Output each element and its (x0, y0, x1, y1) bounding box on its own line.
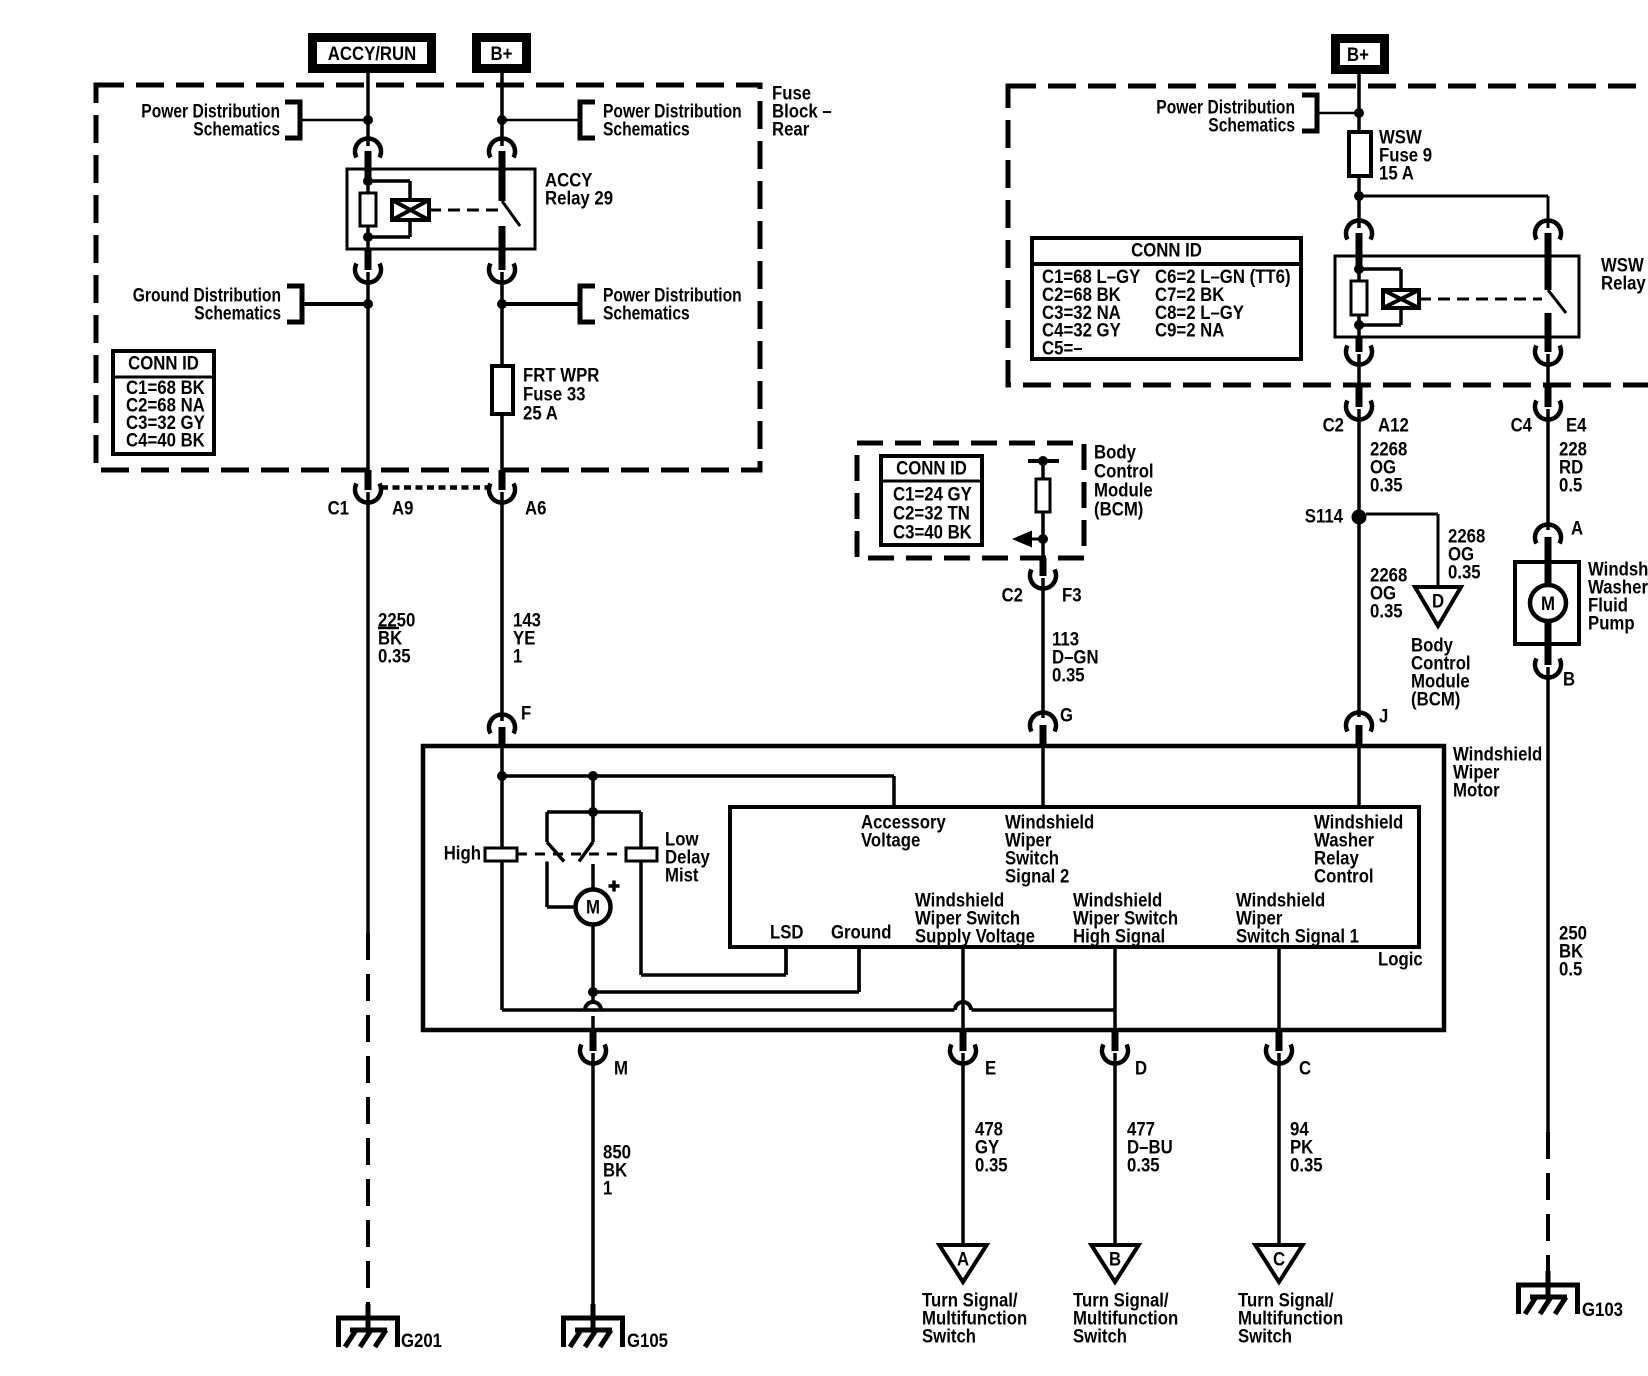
wire to ground distribution (302, 302, 368, 306)
power feed box B+ (left) (477, 38, 527, 69)
connector F arc (489, 714, 515, 733)
node motor ground junction (588, 987, 598, 997)
connector J arc (1346, 712, 1372, 731)
svg-text:Motor: Motor (1453, 779, 1500, 801)
wire 850 BK (591, 1053, 595, 1304)
svg-text:C1: C1 (328, 497, 350, 519)
svg-text:Rear: Rear (772, 118, 810, 140)
wire to power distribution (top right) (502, 119, 580, 122)
svg-text:0.5: 0.5 (1559, 958, 1582, 980)
WSW relay coil return wire (1399, 308, 1403, 325)
svg-text:S114: S114 (1305, 505, 1343, 527)
wire B+ to fuse 33 (500, 272, 504, 366)
connector M stub (590, 1030, 597, 1051)
connector arc below WSW relay pin 3 (1356, 337, 1363, 352)
svg-text:CONN ID: CONN ID (896, 457, 967, 479)
svg-text:Signal 2: Signal 2 (1005, 865, 1069, 887)
svg-text:0.35: 0.35 (1370, 600, 1403, 622)
svg-text:CONN ID: CONN ID (1131, 239, 1202, 261)
wire ground pin (857, 947, 861, 992)
motor symbol washer pump (1530, 585, 1566, 621)
svg-text:E: E (985, 1057, 996, 1079)
svg-text:High: High (444, 842, 481, 864)
wire G to logic (1041, 746, 1045, 807)
connector arc WSW relay pin 1 (1346, 220, 1372, 239)
fuse block - rear dashed border (96, 85, 760, 470)
resistor ACCY relay coil (360, 193, 376, 226)
wire 2268 OG upper (1357, 409, 1361, 514)
ACCY relay switch lower stub (499, 226, 506, 270)
coil symbol WSW relay (1383, 290, 1419, 308)
connector B stub (1545, 644, 1552, 665)
wire to power distribution (right block) (1317, 112, 1359, 115)
svg-text:M: M (1541, 593, 1555, 615)
svg-text:C5=–: C5=– (1042, 338, 1083, 360)
svg-text:Schematics: Schematics (603, 302, 690, 324)
wire F into motor (500, 746, 504, 776)
svg-text:(BCM): (BCM) (1411, 688, 1460, 710)
svg-text:Switch: Switch (1073, 1325, 1127, 1347)
node below fuse 9 (1354, 191, 1364, 201)
svg-text:1: 1 (513, 645, 522, 667)
svg-text:A: A (957, 1248, 969, 1270)
svg-text:LSD: LSD (770, 921, 804, 943)
svg-text:ACCY/RUN: ACCY/RUN (328, 43, 417, 65)
dashed connector link A9-A6 (381, 485, 489, 490)
svg-text:Schematics: Schematics (194, 302, 281, 324)
wire B+ feed (left) (500, 73, 504, 146)
connector E stub (960, 1030, 967, 1051)
svg-text:0.35: 0.35 (378, 645, 411, 667)
wire LSD pin (784, 947, 788, 975)
wiper switch top bar (547, 810, 641, 814)
connector C4 E4 stub (1545, 383, 1552, 407)
node junction top right (497, 115, 507, 125)
switch blade left (547, 842, 564, 862)
connector C2 A12 stub (1356, 383, 1363, 407)
ground G201 (366, 1304, 371, 1330)
switch blade ACCY relay (502, 201, 520, 226)
wire below fuse 9 (1357, 176, 1361, 228)
connector A arc (1535, 524, 1561, 543)
wire motor to M pin (591, 925, 595, 1002)
windshield wiper motor box (423, 746, 1444, 1030)
svg-text:Supply Voltage: Supply Voltage (915, 925, 1035, 947)
svg-text:Schematics: Schematics (1208, 114, 1295, 136)
connector C2 F3 stub (1040, 558, 1047, 576)
wire J to logic (1357, 746, 1361, 807)
wire 143 YE (500, 492, 504, 721)
wire branch to BCM triangle (1366, 513, 1438, 516)
node junction right block (1354, 108, 1364, 118)
plus polarity mark (609, 881, 620, 892)
wire 478 GY (961, 1053, 965, 1245)
wire to power distribution (top left) (300, 119, 368, 122)
relay WSW Relay 44 box (1335, 256, 1579, 337)
svg-text:M: M (586, 896, 600, 918)
svg-text:D: D (1135, 1057, 1147, 1079)
svg-text:Control: Control (1314, 865, 1374, 887)
wire 2250 BK dashed part (366, 933, 370, 1304)
wire high signal pin (1113, 947, 1117, 1030)
svg-text:C3=40 BK: C3=40 BK (893, 521, 972, 543)
wire 250 BK solid part (1546, 667, 1550, 1132)
svg-text:Schematics: Schematics (603, 118, 690, 140)
svg-text:Switch: Switch (922, 1325, 976, 1347)
hop rail over E wire (955, 1002, 971, 1010)
resistor BCM driver (1036, 479, 1050, 512)
connector arc below WSW relay pin 5 (1535, 346, 1561, 365)
coil symbol ACCY relay (392, 200, 429, 220)
motor symbol wiper (545, 862, 549, 908)
wire 94 PK (1277, 1053, 1281, 1245)
WSW relay coil branch wire (1357, 256, 1361, 281)
wire branch to WSW relay switch (1359, 195, 1548, 198)
svg-text:1: 1 (603, 1177, 612, 1199)
table CONN ID (right block) (1032, 238, 1301, 359)
dashed switch positions (517, 853, 625, 856)
svg-text:E4: E4 (1566, 414, 1587, 436)
svg-text:CONN ID: CONN ID (128, 352, 199, 374)
BCM internal wire lower (1041, 512, 1045, 558)
wire relay to block edge (left pin) (1357, 354, 1361, 383)
svg-text:Logic: Logic (1378, 948, 1423, 970)
svg-text:15 A: 15 A (1379, 162, 1414, 184)
ground G103 (1546, 1271, 1551, 1297)
BCM internal supply bar (1028, 459, 1059, 463)
fuse block rear (right) dashed border (1008, 86, 1648, 385)
connector C stub (1276, 1030, 1283, 1051)
table CONN ID (BCM) (881, 456, 982, 545)
svg-text:C9=2 NA: C9=2 NA (1155, 320, 1224, 342)
wire 2268 OG lower (1357, 524, 1361, 717)
connector G arc (1030, 712, 1056, 731)
wire relay to block edge (right pin) (1546, 354, 1550, 383)
connector arc into ACCY relay pin 1 (355, 138, 381, 157)
connector arc below ACCY relay pin 5 (489, 264, 515, 283)
svg-text:Relay 44: Relay 44 (1601, 272, 1648, 294)
svg-text:Relay 29: Relay 29 (545, 187, 613, 209)
connector A6 stub (499, 470, 506, 490)
svg-text:B: B (1109, 1248, 1121, 1270)
node junction mid right (497, 299, 507, 309)
svg-text:Schematics: Schematics (193, 118, 280, 140)
node junction top left (363, 115, 373, 125)
svg-text:F3: F3 (1062, 584, 1082, 606)
ground return to logic (593, 990, 859, 994)
svg-text:Voltage: Voltage (861, 829, 920, 851)
wire switch signal 1 pin (1277, 947, 1281, 1030)
connector arc WSW relay pin 2 (1535, 220, 1561, 239)
svg-text:F: F (521, 702, 531, 724)
svg-text:C: C (1299, 1057, 1311, 1079)
wire supply voltage pin (961, 947, 965, 1030)
wire to power distribution (mid right) (502, 302, 580, 306)
fuse FRT WPR Fuse 33 (492, 366, 513, 414)
connector D stub (1112, 1030, 1119, 1051)
svg-text:0.35: 0.35 (1127, 1154, 1160, 1176)
connector C1 A9 stub (365, 470, 372, 490)
svg-text:0.35: 0.35 (1370, 474, 1403, 496)
svg-text:C: C (1273, 1248, 1285, 1270)
ground G105 (591, 1304, 596, 1330)
svg-text:(BCM): (BCM) (1094, 498, 1143, 520)
svg-text:B+: B+ (1347, 44, 1369, 66)
logic box (730, 807, 1419, 947)
connector triangle B (1091, 1245, 1138, 1282)
wire ACCY/RUN feed (366, 73, 370, 146)
svg-text:D: D (1432, 590, 1444, 612)
svg-text:A9: A9 (392, 497, 414, 519)
switch blade WSW relay (1548, 290, 1566, 313)
svg-text:C2: C2 (1323, 414, 1345, 436)
connector triangle D to BCM (1415, 587, 1461, 626)
svg-text:A6: A6 (525, 497, 547, 519)
svg-text:Switch Signal 1: Switch Signal 1 (1236, 925, 1359, 947)
connector arc below ACCY relay pin 3 (365, 249, 372, 270)
svg-text:Pump: Pump (1588, 612, 1635, 634)
fuse WSW Fuse 9 (1349, 132, 1371, 176)
svg-text:G105: G105 (627, 1330, 668, 1352)
ACCY relay coil return wire (408, 220, 412, 237)
motor internal supply rail (502, 774, 894, 778)
svg-text:C4=40 BK: C4=40 BK (126, 430, 205, 452)
svg-text:0.5: 0.5 (1559, 474, 1582, 496)
BCM internal wire upper (1041, 461, 1045, 479)
resistor Low Delay Mist (626, 848, 657, 861)
body control module dashed border (857, 443, 1084, 558)
svg-text:M: M (614, 1057, 628, 1079)
wire 477 D-BU (1113, 1053, 1117, 1245)
low speed rail (502, 1008, 955, 1012)
resistor High (485, 848, 517, 861)
svg-text:B: B (1563, 668, 1575, 690)
switch blade right (579, 842, 593, 862)
windshield washer fluid pump box (1515, 562, 1579, 644)
table CONN ID (fuse block rear) (113, 351, 214, 454)
dashed actuation line ACCY relay (429, 209, 498, 212)
connector arc into ACCY relay pin 2 (489, 138, 515, 157)
power feed box ACCY/RUN (313, 38, 432, 69)
svg-text:C4: C4 (1511, 414, 1533, 436)
svg-text:0.35: 0.35 (1052, 664, 1085, 686)
wire 250 BK dashed part (1546, 1132, 1550, 1271)
BCM driver output arrow (1030, 538, 1043, 541)
dashed actuation line WSW relay (1419, 298, 1542, 301)
svg-text:A12: A12 (1378, 414, 1409, 436)
WSW relay switch lower stub (1545, 313, 1552, 352)
wire high branch upper (500, 776, 504, 848)
svg-text:Mist: Mist (665, 864, 699, 886)
svg-text:Ground: Ground (831, 921, 892, 943)
wire high branch lower (500, 861, 504, 1010)
wire fuse 33 to block edge (500, 414, 504, 470)
svg-text:C2: C2 (1002, 584, 1024, 606)
wire center contact to motor (591, 864, 595, 890)
svg-text:25 A: 25 A (523, 402, 558, 424)
svg-text:G: G (1060, 704, 1073, 726)
hop M wire over rail (585, 1002, 601, 1010)
svg-text:0.35: 0.35 (975, 1154, 1008, 1176)
svg-text:A: A (1571, 517, 1583, 539)
splice S114 (1352, 510, 1367, 525)
connector triangle A (939, 1245, 986, 1282)
power feed box B+ (right) (1336, 39, 1385, 70)
wire 2250 BK solid part (366, 492, 370, 933)
svg-text:0.35: 0.35 (1448, 561, 1481, 583)
svg-text:Switch: Switch (1238, 1325, 1292, 1347)
resistor WSW relay coil (1351, 281, 1367, 315)
node junction ground dist (363, 299, 373, 309)
connector triangle C (1255, 1245, 1302, 1282)
svg-text:G103: G103 (1582, 1299, 1623, 1321)
wire B+ feed (right) (1357, 74, 1361, 132)
svg-text:0.35: 0.35 (1290, 1154, 1323, 1176)
svg-text:B+: B+ (491, 43, 513, 65)
svg-text:J: J (1379, 705, 1388, 727)
wire 113 D-GN (1041, 578, 1045, 718)
svg-text:G201: G201 (401, 1330, 442, 1352)
wire ACCY/RUN inside fuse block (366, 272, 370, 470)
wire 228 RD (1546, 409, 1550, 530)
wire mist resistor to LSD return (639, 861, 643, 975)
relay ACCY Relay 29 box (347, 169, 535, 249)
ACCY relay coil branch wire (366, 169, 370, 193)
wire wiper switch feed (591, 776, 595, 842)
svg-text:High Signal: High Signal (1073, 925, 1165, 947)
